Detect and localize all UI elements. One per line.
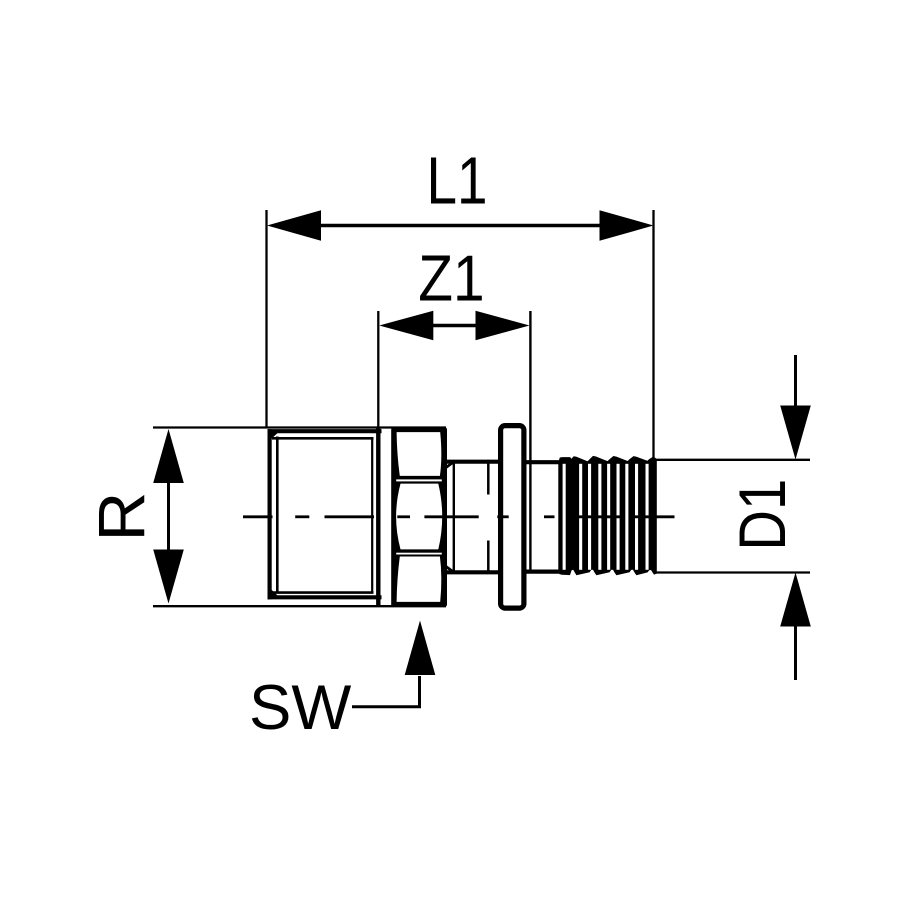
flange disc — [501, 426, 524, 608]
leader line SW — [352, 676, 420, 707]
hex nut body (black block) — [391, 427, 447, 607]
ribbed press-fit end (barbs) — [558, 456, 657, 575]
hex divider sliver lower — [396, 553, 442, 555]
extension line L1 left — [265, 210, 267, 428]
centerline (dash-dot) — [243, 515, 675, 518]
extension line R bottom — [153, 605, 446, 607]
hex divider sliver upper — [396, 479, 442, 481]
neck chamfer diagonals — [446, 462, 454, 468]
dimension line D1 lower — [780, 573, 811, 681]
thread section outer outline — [268, 429, 382, 599]
thread chamfer corner fills — [268, 429, 278, 439]
neck end line at flange — [487, 460, 490, 495]
extension line D1 bottom — [654, 571, 810, 573]
svg-text:L1: L1 — [426, 143, 487, 217]
svg-text:Z1: Z1 — [418, 242, 484, 314]
thread chamfer diagonals — [269, 431, 278, 439]
leader arrow SW — [405, 621, 436, 676]
thread runout end line — [371, 438, 373, 592]
svg-text:R: R — [86, 492, 159, 542]
extension line D1 top — [654, 459, 810, 461]
dimension line Z1 — [379, 311, 529, 341]
rib slots (white) — [563, 464, 649, 570]
extension line Z1 right — [529, 311, 531, 573]
dimension line L1 — [267, 210, 654, 241]
dimension line R — [153, 429, 184, 604]
dimension line D1 upper — [780, 355, 811, 460]
neck between hex and flange — [445, 462, 501, 573]
extension line L1 right — [652, 210, 654, 460]
extension line R top — [153, 426, 446, 428]
thread root line top — [272, 437, 374, 440]
hex top face (white) — [397, 432, 442, 476]
thread chamfer line — [276, 437, 279, 593]
thread root line bottom — [272, 591, 374, 594]
neck chamfer vertical line — [453, 462, 455, 573]
hex bottom face (white) — [397, 557, 442, 602]
extension line Z1 left — [377, 311, 379, 428]
neck between flange and ribs — [524, 462, 561, 571]
svg-text:D1: D1 — [726, 479, 799, 551]
hex middle face (white) — [396, 484, 442, 550]
svg-text:SW: SW — [249, 673, 351, 743]
collar left line — [376, 427, 380, 606]
